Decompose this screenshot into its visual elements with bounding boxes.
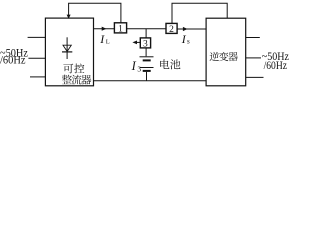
- thyristor V1: cathode bar: [62, 51, 72, 53]
- svg-text:2: 2: [169, 25, 174, 35]
- battery B1: long plate 1: [140, 56, 154, 58]
- battery B1: short thick plate 2: [143, 70, 151, 72]
- wire: feedback from box 1 top to rectifier top: [69, 3, 121, 23]
- svg-text:I: I: [131, 59, 137, 73]
- svg-text:s: s: [187, 38, 190, 46]
- svg-text:/60Hz: /60Hz: [264, 60, 287, 72]
- wire: AC output phase 3 (right): [246, 76, 264, 78]
- svg-text:1: 1: [118, 25, 123, 35]
- box 1 (sensor 1): [114, 23, 126, 33]
- svg-text:L: L: [106, 39, 110, 46]
- wire: box 2 to inverter (current IS): [177, 28, 206, 30]
- label: 逆变器 (inverter) in inverter box: [210, 52, 219, 61]
- wire: rectifier output to box 1 (current IL): [94, 28, 115, 30]
- svg-text:I: I: [99, 32, 105, 46]
- wire: DC bus junction down to box 3: [145, 29, 147, 38]
- thyristor V1 (diode symbol inside rectifier): anode lead through triangle: [66, 37, 68, 52]
- label: 整流器 (rectifier) in rectifier box: [62, 75, 72, 84]
- box 3 (battery switch): [140, 38, 150, 48]
- wire: AC input phase 2 (left): [28, 57, 46, 59]
- arrow: from box 3 pointing left: [135, 41, 140, 43]
- wire: battery negative to bottom DC bus: [146, 72, 148, 81]
- label: 可控 (controllable) in rectifier box: [63, 64, 73, 74]
- wire: feedback from box 2 top to inverter top: [172, 3, 227, 23]
- wire: box 3 to battery positive plate: [145, 48, 147, 56]
- wire: AC output phase 1 (right): [246, 37, 260, 39]
- svg-text:3: 3: [137, 65, 141, 74]
- battery B1: short thick plate 1: [143, 59, 151, 61]
- svg-text:3: 3: [143, 39, 148, 49]
- wire: box 1 to box 2: [127, 28, 166, 30]
- svg-text:I: I: [181, 32, 187, 46]
- wire: AC input phase 1 (left): [28, 36, 46, 38]
- arrowhead: feedback into rectifier (down): [67, 15, 71, 19]
- wire: bottom DC bus rectifier to inverter: [94, 80, 207, 82]
- thyristor V1: cathode lead: [66, 52, 68, 59]
- block U1: controlled rectifier 可控整流器 box: [45, 18, 93, 86]
- wire: AC input phase 3 (left): [30, 76, 46, 78]
- battery B1: long plate 2: [140, 67, 154, 69]
- arrowhead: IL direction right: [102, 27, 107, 31]
- arrowhead: IS direction right: [183, 27, 188, 31]
- box 2 (sensor 2): [166, 23, 177, 33]
- block U2: inverter 逆变器 box: [206, 18, 246, 86]
- thyristor V1: hollow triangle: [63, 45, 71, 51]
- label: 电池 (battery): [160, 59, 169, 69]
- wire: AC output phase 2 (right): [246, 57, 261, 59]
- svg-text:/60Hz: /60Hz: [0, 55, 26, 67]
